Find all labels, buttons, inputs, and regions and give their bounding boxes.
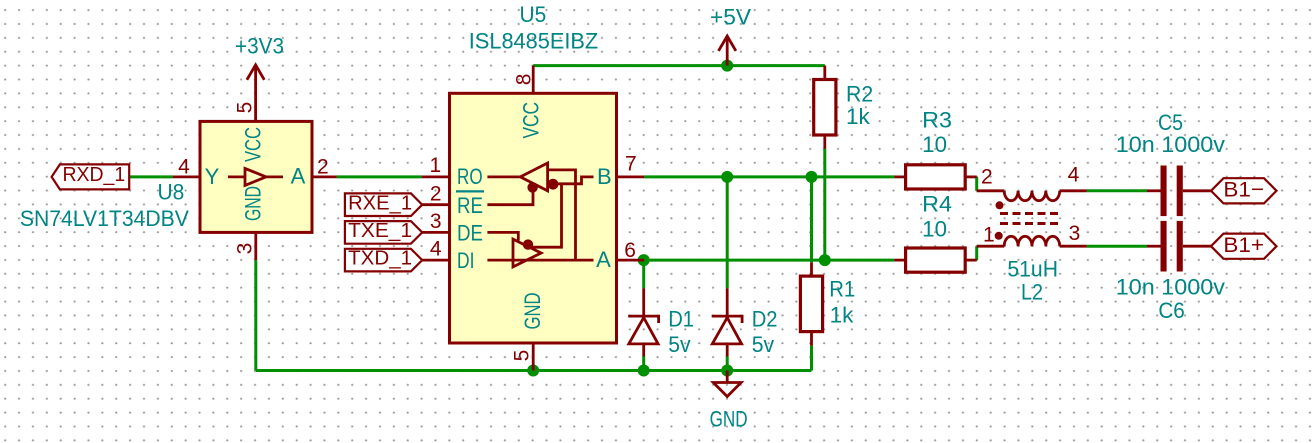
junction +5V rail — [721, 60, 733, 72]
junction ground bus / D1 — [638, 365, 650, 377]
global label TXE_1 — [345, 219, 422, 244]
svg-text:RXE_1: RXE_1 — [348, 191, 412, 214]
wire net B down to R1 — [810, 177, 813, 262]
junction net B / R1 — [806, 171, 818, 183]
svg-text:7: 7 — [625, 153, 637, 176]
svg-text:4: 4 — [178, 156, 190, 179]
svg-text:DI: DI — [457, 248, 474, 273]
U8 pin 4 — [173, 156, 200, 179]
svg-text:+3V3: +3V3 — [235, 34, 284, 59]
U5 pin 5 (GND) — [511, 343, 534, 371]
svg-text:+5V: +5V — [710, 5, 751, 30]
svg-text:R3: R3 — [922, 107, 952, 132]
svg-text:3: 3 — [234, 243, 257, 255]
capacitor C5 — [1147, 166, 1211, 217]
svg-text:10n 1000v: 10n 1000v — [1116, 274, 1225, 299]
svg-text:1: 1 — [983, 224, 995, 247]
transformer L2 pin 4 — [1060, 164, 1087, 191]
transformer L2 polarity dots — [995, 201, 1004, 240]
wire net A to D1 — [642, 260, 645, 288]
svg-text:D2: D2 — [752, 306, 778, 331]
U5 driver buffer — [487, 239, 593, 267]
zener diode D1 — [628, 288, 658, 356]
U5 pin 7 (B) — [617, 153, 645, 177]
svg-text:1k: 1k — [830, 303, 855, 328]
capacitor C6 — [1147, 221, 1211, 272]
svg-text:5v: 5v — [752, 332, 774, 357]
wire R4 to L2 pin 1 — [975, 246, 978, 260]
svg-text:1k: 1k — [846, 104, 871, 129]
U5 pin 1 (RO) — [422, 154, 450, 177]
svg-text:GND: GND — [710, 406, 748, 431]
svg-text:4: 4 — [1068, 164, 1080, 187]
U5 internal RE line — [487, 185, 533, 205]
U5 pin 8 (VCC) — [512, 66, 535, 94]
wire D1 to ground bus — [642, 357, 645, 371]
junction net A / R2 — [819, 254, 831, 266]
svg-text:D1: D1 — [668, 306, 694, 331]
wire RXD_1 to U8 pin 4 — [129, 175, 173, 178]
junction ground bus / U5 pin 5 — [527, 365, 539, 377]
global label B1+ — [1211, 233, 1277, 259]
svg-text:R1: R1 — [829, 277, 855, 302]
U5 internal junction dots — [523, 179, 559, 250]
svg-text:GND: GND — [240, 186, 265, 221]
svg-text:U8: U8 — [158, 180, 185, 205]
ground symbol — [713, 371, 741, 397]
svg-text:2: 2 — [430, 182, 442, 205]
wire R3 to L2 pin 2 — [975, 177, 978, 191]
U8 buffer symbol — [228, 168, 283, 185]
svg-text:TXD_1: TXD_1 — [348, 247, 412, 270]
resistor R3 — [894, 165, 977, 189]
svg-text:5: 5 — [234, 102, 257, 114]
svg-text:GND: GND — [520, 293, 545, 330]
junction ground bus / D2 — [721, 365, 733, 377]
svg-text:5: 5 — [511, 350, 534, 362]
svg-text:RE: RE — [457, 193, 483, 218]
junction net B / D2 — [721, 171, 733, 183]
transformer L2 primary winding — [1004, 191, 1060, 201]
svg-text:R2: R2 — [846, 82, 873, 107]
svg-text:TXE_1: TXE_1 — [348, 219, 412, 242]
global label B1- — [1211, 177, 1277, 203]
wire R1 to ground bus — [810, 346, 813, 371]
svg-text:DE: DE — [457, 220, 483, 245]
transformer L2 pin 1 — [977, 224, 1005, 247]
svg-text:ISL8485EIBZ: ISL8485EIBZ — [469, 29, 598, 54]
wire L2 pin 4 to C5 — [1087, 189, 1147, 192]
IC U8 body — [200, 121, 312, 232]
svg-text:B: B — [597, 164, 612, 189]
wire ground bus — [256, 369, 812, 372]
svg-text:Y: Y — [205, 164, 220, 189]
svg-text:A: A — [291, 164, 306, 189]
wire net B down to D2 — [726, 177, 729, 288]
wire net B from U5 pin 7 to R3 — [644, 175, 894, 178]
wire R2 down to net A — [823, 149, 826, 260]
U5 pin 3 (DE) — [422, 210, 449, 233]
U5 pin 2 (RE) — [422, 182, 449, 205]
power symbol +3V3 — [247, 65, 264, 122]
wire U8 pin 2 to U5 pin 1 — [337, 175, 422, 178]
svg-text:3: 3 — [430, 210, 442, 233]
svg-text:B1−: B1− — [1223, 177, 1264, 201]
global label TXD_1 — [345, 247, 422, 272]
svg-text:10n 1000v: 10n 1000v — [1116, 132, 1225, 157]
U5 internal net A wiring — [548, 170, 576, 260]
U8 pin 3 — [234, 232, 257, 260]
transformer L2 pin 2 — [977, 166, 1005, 191]
U8 pin 2 — [312, 156, 337, 179]
svg-text:L2: L2 — [1021, 280, 1043, 305]
svg-text:10: 10 — [922, 132, 947, 157]
svg-text:10: 10 — [922, 217, 947, 242]
svg-text:B1+: B1+ — [1223, 233, 1264, 257]
resistor R4 — [894, 248, 977, 272]
svg-text:U5: U5 — [520, 2, 547, 27]
svg-text:1: 1 — [430, 154, 442, 177]
wire L2 pin 3 to C6 — [1087, 245, 1147, 248]
transformer L2 secondary winding — [1004, 236, 1060, 246]
U5 receiver buffer — [487, 163, 547, 191]
svg-text:5v: 5v — [668, 332, 690, 357]
global label RXE_1 — [345, 191, 422, 216]
svg-text:SN74LV1T34DBV: SN74LV1T34DBV — [20, 206, 189, 231]
U5 pin 4 (DI) — [422, 238, 449, 261]
svg-text:VCC: VCC — [519, 102, 544, 139]
svg-text:6: 6 — [624, 239, 636, 262]
transformer L2 core — [1000, 214, 1061, 224]
junction net A / D1 — [638, 254, 650, 266]
power symbol +5V — [719, 36, 736, 66]
svg-text:51uH: 51uH — [1007, 256, 1058, 281]
svg-text:2: 2 — [981, 166, 993, 189]
resistor R1 — [800, 262, 822, 345]
svg-text:C6: C6 — [1158, 298, 1184, 323]
svg-text:8: 8 — [512, 74, 535, 86]
wire net A from U5 pin 6 to R4 — [644, 259, 894, 262]
U5 internal net B wiring — [531, 177, 594, 247]
svg-text:RO: RO — [457, 164, 483, 189]
resistor R2 — [814, 66, 836, 149]
svg-text:RXD_1: RXD_1 — [62, 163, 125, 186]
U5 pin 6 (A) — [617, 239, 645, 262]
svg-text:VCC: VCC — [240, 127, 265, 162]
transformer L2 pin 3 — [1060, 222, 1087, 246]
svg-text:R4: R4 — [922, 192, 952, 217]
svg-text:4: 4 — [430, 238, 442, 261]
global label RXD_1 — [52, 163, 130, 189]
U5 pin name RE — [456, 191, 484, 218]
wire +5V rail from U5 pin 8 to R2 — [533, 64, 825, 67]
wire D2 to ground bus — [726, 357, 729, 371]
svg-text:3: 3 — [1069, 222, 1081, 245]
svg-text:2: 2 — [317, 156, 329, 179]
wire U8 pin 3 down to ground bus — [254, 260, 257, 370]
zener diode D2 — [712, 288, 742, 356]
U5 internal DE line — [487, 232, 518, 240]
IC U5 body — [450, 93, 617, 343]
svg-text:A: A — [596, 247, 611, 272]
